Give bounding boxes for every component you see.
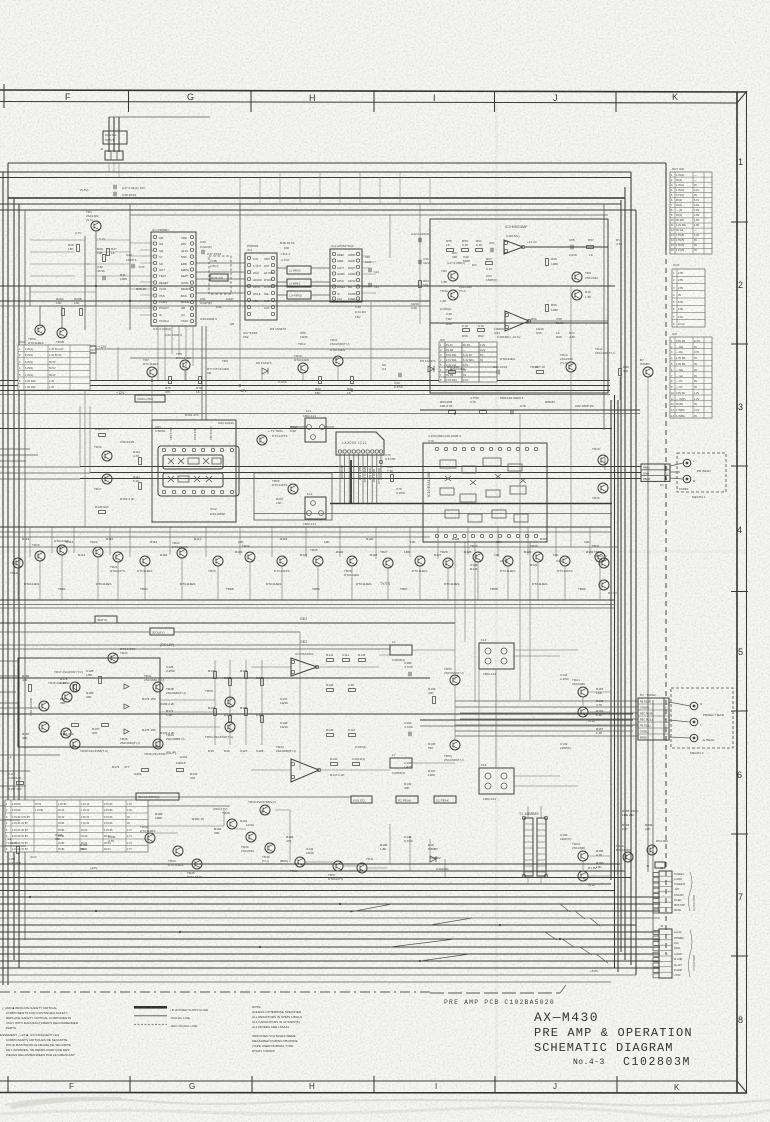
horizontal wires left of IC1 [30,240,130,292]
P1 wire verticals [80,406,520,472]
transistor TR44 [168,846,183,867]
misc right verticals [571,286,648,547]
transistor TR15 [592,483,608,500]
shield box F top [0,209,636,211]
opamp IC9b triangle [505,311,529,331]
capacitor C27 [114,185,116,189]
R63 resistor [486,262,493,265]
row2 legs down to bus [18,555,600,600]
transistor TR14 [560,353,576,372]
wire bus power [0,931,660,933]
transistor TR12 [330,348,345,366]
label S1 PEAK boxed [434,796,456,803]
bus y306 [0,305,430,307]
right mecha vertical 1 [647,440,649,872]
PB head jack L [683,459,691,467]
transistor TR37 [328,861,343,881]
wires top cluster [40,305,96,307]
transistor TR10 [294,354,309,373]
resistor R28 [68,243,79,252]
feedback network IC13 [326,653,366,777]
R93A resistor [290,425,299,433]
voltage table IC8 [670,172,712,254]
vertical wires under IC1 [201,326,203,420]
shield box F right [635,210,637,975]
dolby interior transistor TR46r [144,739,166,756]
L4 L7 coil boxes [390,640,412,775]
transistor TR13b [592,447,608,470]
bus y608 [0,607,615,609]
IC3 pin bubbles right [271,256,274,315]
diode D13 [124,684,129,689]
bottom tick G/H [251,1076,253,1093]
shield box A right dashed [665,250,667,955]
C57 cluster [243,327,308,339]
transistor TR9b [572,290,592,300]
wires IC1-IC3-IC4 [196,262,245,264]
fold line vertical faint [495,104,498,1081]
IC2 inner matrix 2 [163,473,223,487]
resistor R76 [196,377,202,395]
filter L2 box [287,266,311,274]
wire bus a+12v [0,924,636,926]
transistor TR4 [440,289,458,303]
IC3 pin bubbles left [247,256,250,315]
right bus vertical 4 [603,204,605,430]
resistor R82 [347,377,353,396]
dolby interior transistor TR61 [29,698,49,716]
filter FL4 box [479,763,514,801]
cap column C103 [404,661,436,790]
LA3000 drop wires [340,454,381,503]
border tick H/I [373,90,375,112]
wire bus mtr-stp [0,903,660,905]
bus diagonal transitions [350,904,472,961]
row tick 4/5 [731,591,748,593]
wire bus mute [0,910,660,912]
opamp IC13a [291,652,319,676]
right mecha vertical 2 [652,700,654,930]
IC1 left pin bubbles [153,235,156,322]
dolby bus y678 [0,677,430,679]
mid labels [112,665,296,780]
scan speckle noise [0,0,1,1]
R94 cluster below opamp box [440,396,595,408]
wire bus data [0,946,660,948]
REC block box around FL2 [254,473,332,520]
filter FL3 box [479,638,514,676]
bus y413 [0,413,640,415]
transistor TR36 [290,857,305,873]
voltage table IC6 [670,337,712,418]
transistor TR6A [28,325,45,345]
diode D5b [428,366,434,372]
connector P3 [653,866,695,913]
dolby interior transistor TR41r [144,674,164,692]
bottom resistor row [463,329,470,332]
bus junction dots [29,285,561,962]
IC1 bottom pin wires [158,326,193,380]
dolby interior parts [22,669,140,745]
dolby interior transistor TR48 [70,739,108,753]
stub wires from IC1 left [130,243,153,315]
transistor TR17 [94,474,112,491]
left column coil L4b [8,755,24,791]
bus y390 [0,390,610,392]
cap C60 [394,373,403,389]
shield box B top [0,171,631,173]
IC3 pin names [253,257,274,310]
wire row1 base line [130,357,430,359]
resistor R80 [315,377,321,396]
wire opamp1 out [525,246,608,248]
IC2 switch block box [152,420,236,522]
IC2 internal switches [168,458,221,482]
shield left vertical 3 [13,198,15,960]
dolby interior transistor TR64 [61,728,71,738]
resistor R87 [535,365,546,373]
wire bus tuner-r [0,877,631,879]
bus y286 [0,285,615,287]
border tick F/G [128,90,130,112]
transistor TR30b [248,800,276,815]
bus y632 [0,631,150,633]
C55 cap [571,245,573,249]
wire bus a-gnd [0,870,625,872]
wire digital-input drop 3 [118,117,120,152]
transistor TR53 [205,689,235,707]
transistor TR54 [205,722,235,739]
bus y806 [0,805,230,807]
R165 cluster [596,687,604,869]
right bus vertical 2 [614,395,616,968]
bus y797 [0,796,351,798]
opamp enclosure box [430,219,608,393]
wire digital-input drop 2 [113,117,115,152]
IC3 PD9009 box [245,253,277,320]
voltage table IC9 [439,338,497,382]
shield box A right (part solid) [665,163,667,250]
shield box E right [620,200,622,952]
IC2 pin bubbles top [162,448,233,451]
transistor row2 [10,558,23,575]
chassis gnd box [30,348,78,370]
wire bus -12v [0,883,611,885]
R65 vertical resistor [546,259,549,266]
bus y394 [0,394,610,396]
bus y726 [420,725,633,727]
transistor TR60 [616,844,633,862]
border tick J/K [615,91,617,112]
transistor TR41 [357,857,374,873]
IC1 pin names [159,236,191,323]
transistor TR52r [599,580,618,595]
wire bus m-gnd [0,960,660,962]
label DIGITAL INPUT box [103,131,127,144]
wire bus a-gnd2 [0,953,660,955]
border tick I/J [494,91,496,112]
shield left vertical 4 [18,204,20,968]
resistor R27 [107,247,117,256]
wire bus tuner-l [0,863,620,865]
right bus vertical 1 [610,400,612,880]
transistor TRA4 [578,871,595,887]
left edge wire stubs [0,449,90,846]
bus y623 [0,622,455,624]
IC11 LA3000 box [254,425,612,520]
wire bus clk [0,938,660,940]
R205 cluster labels [622,809,653,831]
R57 [587,246,594,249]
IC2 inner matrix 1 [163,455,223,469]
transistor TR6B [56,328,71,348]
mid transistors TR53b TR54b [444,667,464,685]
transistor TRA2 [578,707,595,723]
ONLY boxed label [82,346,96,353]
BATV boxed label [95,616,117,623]
transistor TR39 [241,832,256,853]
MECHA1 dashed box [670,453,726,499]
row tick 2/3 [731,343,748,345]
IC4 pin bubbles [332,252,359,300]
bus verticals row2 [30,527,590,559]
dolby interior transistor TR45b [48,681,72,702]
coil T1 transformer [519,812,548,878]
row tick 5/6 [731,710,748,712]
resistor labels cluster [155,812,448,871]
transistor TR51r [594,550,609,568]
transistor TR2 [441,269,458,284]
capacitor C28 [114,192,116,196]
connector TUNER jack [655,862,665,868]
wire TR1 vertical [95,231,97,306]
resistor R131 [177,769,184,772]
note block left safety [0,1006,79,1057]
shield left vertical 2 [2,172,4,985]
diode D16 [124,729,129,734]
transistor TR-M [640,358,653,377]
bus y708 [0,707,40,709]
cap C62 [493,365,508,374]
wires to P1 [80,466,641,468]
R29 cluster left of IC1 [97,247,147,291]
stub wires IC4 right [362,256,376,293]
IC1 right pin bubbles [190,235,193,322]
wire bus osc13v [0,890,614,892]
IC4 uPD63 box [330,249,362,302]
wire bus +5.8v [0,981,611,983]
shield box D right [624,187,626,960]
label K01 EQ boxed [351,796,372,803]
bus y301 [0,300,430,302]
IC4 pin names [337,253,356,301]
bus y430 [0,428,612,430]
resistor R75 [165,377,171,395]
shield box G top [130,214,608,216]
big voltage table IC14 [5,800,148,852]
transistor TR38 [222,811,248,829]
transistor TR8 [176,352,191,370]
row2 extra labels [24,582,586,591]
bus y547 [0,546,618,548]
bus y385 [0,385,610,387]
border tick G/H [250,90,252,112]
bus y537 [0,536,430,538]
row tick 6/7 [731,833,748,835]
wire bus spare [0,917,660,919]
wire opamp2 out [529,320,608,322]
bus y720 [420,719,633,721]
IC2 pin bubbles bottom [162,490,233,493]
table IC-left [18,340,90,390]
bottom tick I/J [494,1076,496,1093]
G191 cluster [55,833,116,851]
connector P4 [653,924,695,978]
wire digital-input drop 1 [108,117,110,152]
filter L14 box [287,291,311,299]
filter FL2 box [303,492,326,526]
resistor R26A [56,297,65,316]
dolby interior transistor TR63 [39,722,49,732]
transistor TRA3 [572,842,588,861]
VDD-CHN boxed label [135,395,165,402]
shield left vertical 5 [24,210,26,940]
C108 cluster [470,559,562,571]
L1 coil left bottom [8,837,21,865]
filter L3 box [287,279,311,287]
opamp IC13b [291,759,321,782]
legend power supply line sample [134,1006,167,1009]
thick audio bus under LA3000 [330,503,612,505]
row tick 3/4 [731,465,748,467]
dolby interior transistor TR43 [108,647,135,663]
MECHA2 dashed box [669,688,733,755]
shield box B right [630,172,632,965]
transistor TR16 [94,445,112,461]
fold line horizontal faint [0,550,746,553]
corner diagonal top-right [737,91,747,103]
IC10 EXA1158F box [423,434,547,542]
label R2 PEAK boxed [396,796,418,803]
bus step-downs into P4 [545,904,608,963]
border top band line lower [0,102,737,104]
wires to P2 [455,700,638,702]
row2 resistor labels [78,550,594,557]
transistor TR62 [272,479,298,494]
bus y755 [0,754,60,756]
bus y731 [455,730,633,732]
border top band line upper [0,90,746,92]
wires top area verticals [109,163,430,203]
bus y527 [0,526,611,528]
diode D14 [124,704,129,709]
diode D5 [256,361,272,374]
resistor R26B [74,297,82,316]
shield box A top [8,162,666,164]
legend rec signal line sample [134,1024,167,1026]
border bottom band line lower [0,1092,747,1095]
IC2 inner outline [158,446,239,496]
vertical wires mid-page [85,306,206,527]
dashed box C74B [209,256,231,294]
bottom tick F-left [7,1076,9,1093]
bus y604 [0,604,615,606]
rotated value labels [340,465,381,484]
shield box D top [8,197,625,199]
border right outer line [746,92,748,1093]
filter FL1 box [290,409,334,442]
connector J1 [105,151,123,160]
center resistor grid [208,660,264,753]
resistor R85 [447,365,460,373]
bus y380 [0,380,610,382]
crinkle shadow bottom 2 [0,1108,770,1117]
wire bus s-led [0,896,660,898]
transistor TR34 [140,825,155,843]
bus y410 [420,409,640,411]
opamp IC9a triangle [504,240,523,254]
transistor TR9a [572,271,598,282]
bus y645 [0,644,390,646]
pcb boundary dash-dot line [0,991,430,993]
small box M2.1K [210,274,228,281]
bus y600 [0,599,615,601]
border bottom band line upper [0,1080,737,1082]
DOLBY block box [18,658,160,747]
diode D18 [430,856,436,862]
row tick 7/8 [731,955,748,957]
DKGS DOWN boxed label [136,793,179,800]
wire bus d-gnd [0,974,636,976]
bottom tick H/I [373,1076,375,1093]
note block right [252,1005,302,1053]
bus y649 [0,648,390,650]
transistor TRA1 [572,678,588,697]
IC10 internals [440,458,528,522]
corner diagonal bottom-right [737,1081,747,1093]
R66 vertical resistor [546,305,549,312]
voltage table IC11 [672,269,705,327]
connector P2 [638,693,669,740]
LA3000 thick drop [350,460,352,503]
cap C42 column [411,232,431,310]
bus y349 [95,348,430,350]
resistor R90 [619,365,629,376]
legend signal line sample [134,1015,167,1016]
R-row above row2 [22,537,590,544]
crinkle fold bottom-left [10,1097,125,1109]
bus y513 [254,513,612,515]
resistors R126 R129 [95,427,110,436]
bus y532 [0,531,611,533]
shield box C top [0,177,631,179]
TP labels on buses [90,856,599,973]
bottom tick J/K [616,1076,618,1093]
bottom tick F/G [129,1076,131,1093]
shield box E top [0,203,621,205]
PB head jack R [683,475,691,483]
bus y714 [0,713,633,715]
border tick F-left [3,84,5,108]
wire bus m+12v [0,967,660,969]
transistor TR7 [143,358,158,377]
transistor TR61a [257,429,287,445]
border right inner line [736,92,738,1093]
wire digital-input top [109,116,210,118]
dolby right resistors [142,697,176,735]
IC1 PD9007 box [151,232,196,326]
bus y323 [430,322,608,324]
